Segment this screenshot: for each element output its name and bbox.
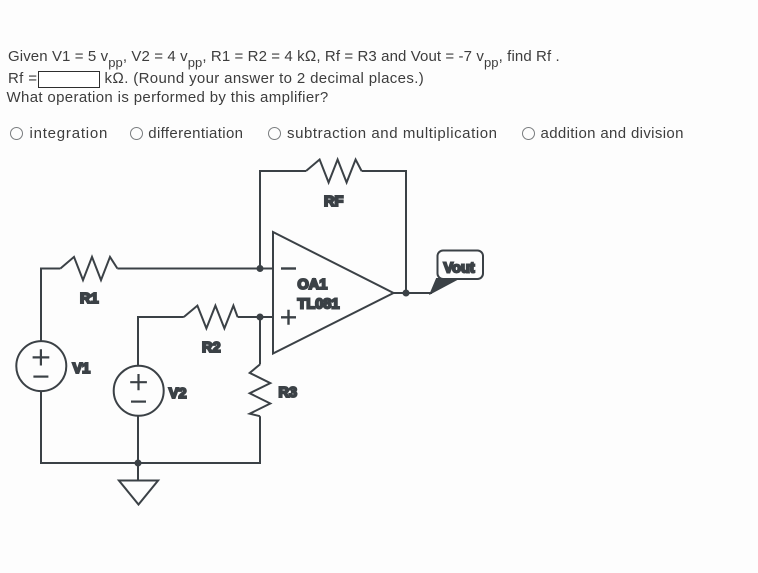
wire R3 top lead	[259, 317, 261, 364]
wire R2 to non-inverting input	[238, 316, 273, 318]
wire R3 bottom lead	[259, 416, 261, 464]
op-amp U1 triangle	[273, 232, 394, 354]
answer input box	[38, 71, 100, 88]
wire V2 bottom lead	[137, 416, 139, 464]
source V1	[16, 341, 66, 391]
node C output junction	[403, 290, 410, 297]
wire feedback right vertical	[405, 170, 407, 293]
radio option: integration	[10, 127, 23, 140]
node D ground junction	[135, 460, 142, 467]
wire V2 top lead	[138, 317, 184, 366]
wire bottom rail	[40, 462, 261, 464]
radio option: differentiation	[130, 127, 143, 140]
svg-text:V2: V2	[169, 386, 187, 402]
wire V1 to R1	[41, 269, 60, 270]
radio option: addition and division	[522, 127, 535, 140]
question line 1	[8, 47, 560, 66]
node A inverting input junction	[257, 265, 264, 272]
svg-text:TL081: TL081	[298, 297, 340, 313]
radio option: subtraction and multiplication	[268, 127, 281, 140]
svg-text:V1: V1	[73, 361, 91, 377]
svg-text:R3: R3	[279, 385, 298, 401]
source V2	[114, 366, 164, 416]
question line 2: units	[105, 69, 425, 88]
resistor R1	[60, 257, 117, 280]
svg-text:RF: RF	[324, 194, 343, 210]
op-amp minus input symbol	[281, 267, 296, 269]
svg-text:R2: R2	[202, 340, 221, 356]
wire V1 top lead	[40, 269, 42, 342]
question line 2: Rf =	[8, 69, 37, 88]
op-amp plus input symbol	[281, 310, 296, 325]
svg-text:R1: R1	[80, 291, 99, 307]
Vout probe pointer	[430, 279, 459, 295]
resistor R2	[184, 306, 238, 329]
svg-text:OA1: OA1	[298, 277, 328, 293]
resistor RF	[306, 160, 362, 183]
wire R1 to inverting input	[117, 268, 273, 270]
question line 3	[7, 88, 329, 107]
wire output	[394, 292, 433, 294]
Vout probe box	[438, 251, 484, 280]
ground	[137, 463, 139, 481]
wire feedback left vertical	[259, 171, 261, 270]
wire V1 bottom lead	[40, 391, 42, 464]
wire feedback top right lead	[362, 170, 407, 172]
wire feedback top left lead	[259, 170, 306, 172]
svg-text:Vout: Vout	[444, 261, 475, 277]
node B non-inverting input junction	[257, 314, 264, 321]
resistor R3	[250, 364, 271, 416]
